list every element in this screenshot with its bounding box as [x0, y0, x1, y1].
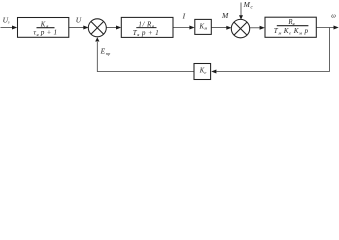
svg-text:U: U: [76, 16, 82, 25]
svg-text:E: E: [100, 46, 106, 55]
svg-text:ω: ω: [331, 13, 336, 20]
svg-text:M: M: [221, 11, 229, 20]
svg-text:з: з: [7, 19, 10, 24]
svg-text:пр: пр: [106, 51, 111, 56]
svg-text:м: м: [203, 26, 207, 31]
svg-text:M: M: [243, 0, 251, 9]
svg-text:К: К: [40, 21, 46, 28]
svg-text:е: е: [204, 70, 206, 75]
svg-text:Тя p + 1: Тя p + 1: [133, 29, 160, 37]
svg-text:I: I: [182, 11, 186, 20]
